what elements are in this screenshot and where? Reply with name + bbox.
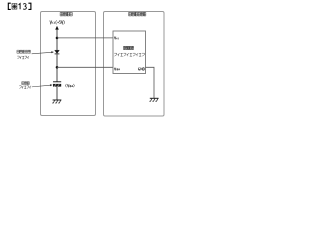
diode D1 (逆流防止用ダイオード) (55, 50, 60, 54)
ground (left) (52, 100, 61, 103)
label arrow to diode (32, 51, 54, 54)
power supply board box (電源基板) (41, 12, 96, 116)
title 【図13】 (8, 3, 31, 9)
label 充電用コンデンサ (19, 82, 31, 89)
pin label VBA (114, 68, 119, 71)
node junction (Vcc branch) (56, 37, 59, 40)
label arrow to capacitor (32, 84, 53, 87)
capacitor C1 (充電用コンデンサ) (53, 82, 61, 87)
label 逆流防止用ダイオード (17, 50, 31, 59)
wire: capacitor to ground (56, 87, 58, 100)
pin label Vcc (114, 37, 118, 40)
microcomputer U1 (遊技制御用マイクロコンピュータ) (113, 31, 146, 74)
wire GND to ground (146, 67, 155, 98)
label 遊技制御用 (123, 46, 133, 49)
pin label GND (138, 68, 145, 71)
wire Vcc to microcomputer (57, 37, 113, 39)
value label (VBA) (66, 84, 75, 87)
net label Vcc(+5V) (50, 20, 65, 24)
ground (right) (149, 98, 158, 101)
node junction (VBA branch) (56, 66, 59, 69)
power arrow Vcc (55, 26, 59, 38)
label 電源基板 (60, 12, 72, 16)
game control board box (遊技制御基板) (104, 12, 165, 117)
wire: diode to capacitor (56, 54, 58, 81)
wire: Vcc node down to diode (56, 38, 58, 50)
wire VBA to microcomputer (57, 66, 113, 68)
label マイクロコンピュータ (114, 53, 144, 56)
label 遊技制御基板 (129, 12, 146, 16)
